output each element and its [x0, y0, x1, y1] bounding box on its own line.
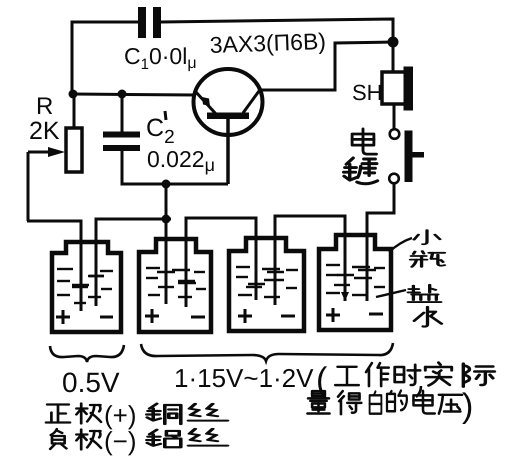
wire earphone to key: [393, 104, 396, 129]
brace 1.15V group: [141, 343, 393, 361]
jar 3 polarity: [238, 309, 295, 323]
resistor R1 2K: [66, 95, 82, 172]
svg-text:0.5V: 0.5V: [62, 367, 120, 398]
brace 0.5V: [50, 345, 124, 362]
node bus junction: [162, 215, 171, 224]
label zheng ji tong si: [46, 400, 227, 430]
svg-text:3AX3(П6B): 3AX3(П6B): [209, 28, 326, 58]
svg-text:SH: SH: [352, 80, 383, 105]
jar 3 liquid: [236, 267, 298, 297]
svg-text:1·15V~1·2V: 1·15V~1·2V: [174, 363, 314, 393]
earphone SH: [382, 67, 413, 111]
svg-text:(−): (−): [104, 426, 137, 456]
wire C2 top lead: [121, 94, 124, 133]
label dian jian: [344, 129, 378, 184]
node C2 tap: [118, 90, 127, 99]
wire wiper arm: [28, 147, 65, 221]
jar 2 polarity: [145, 309, 205, 323]
electrode crossbars: [72, 270, 376, 285]
jar 2 liquid: [146, 268, 206, 297]
svg-text:0.022μ: 0.022μ: [147, 146, 215, 175]
wire key to jar4: [367, 183, 394, 232]
svg-text:R: R: [36, 93, 53, 120]
wire collector to SH: [259, 42, 393, 90]
label fu ji lv si: [50, 426, 227, 456]
jar 1: [52, 242, 121, 332]
label C2: [146, 111, 175, 148]
node emitter-line junction: [162, 180, 171, 189]
wire bus left: [27, 221, 81, 311]
wire C2 bottom lead: [122, 151, 228, 184]
jar 1 polarity: [56, 310, 113, 324]
node base junction: [69, 90, 78, 99]
wire jar2 left electrode: [165, 219, 168, 304]
wire jar2-jar3 bridge: [186, 218, 256, 307]
jar 2: [139, 239, 211, 332]
capacitor C2: [103, 132, 140, 152]
label xiao ping: [410, 230, 444, 267]
label liang de bai de dian ya: [307, 387, 473, 425]
jar 4 polarity: [326, 308, 383, 322]
svg-text:C10·0lμ: C10·0lμ: [124, 43, 197, 73]
jar 1 liquid: [57, 269, 113, 303]
capacitor C1: [138, 7, 161, 38]
pointer to xiao ping: [389, 238, 412, 252]
jar 4: [319, 235, 391, 330]
transistor Q1 3AX3: [194, 69, 263, 184]
svg-text:C2: C2: [146, 114, 175, 148]
wire jar1 right electrode: [96, 219, 171, 306]
wire junction drop: [165, 184, 168, 219]
wire jar3-jar4 bridge: [275, 216, 345, 305]
wire jar4 right electrode: [366, 213, 369, 301]
wire base: [72, 94, 196, 95]
svg-text:2K: 2K: [29, 117, 60, 145]
label gong zuo shi shi ji: [335, 363, 494, 397]
wire top left: [72, 22, 138, 95]
jar 3: [229, 238, 304, 331]
jar 4 liquid: [326, 265, 385, 295]
wire to earphone: [392, 42, 395, 72]
svg-text:): ): [462, 387, 473, 425]
pointer to yan shui: [376, 290, 406, 297]
node collector/top junction: [388, 37, 399, 48]
wire top right: [161, 19, 393, 42]
label yan shui: [408, 285, 441, 327]
key switch: [389, 129, 424, 183]
